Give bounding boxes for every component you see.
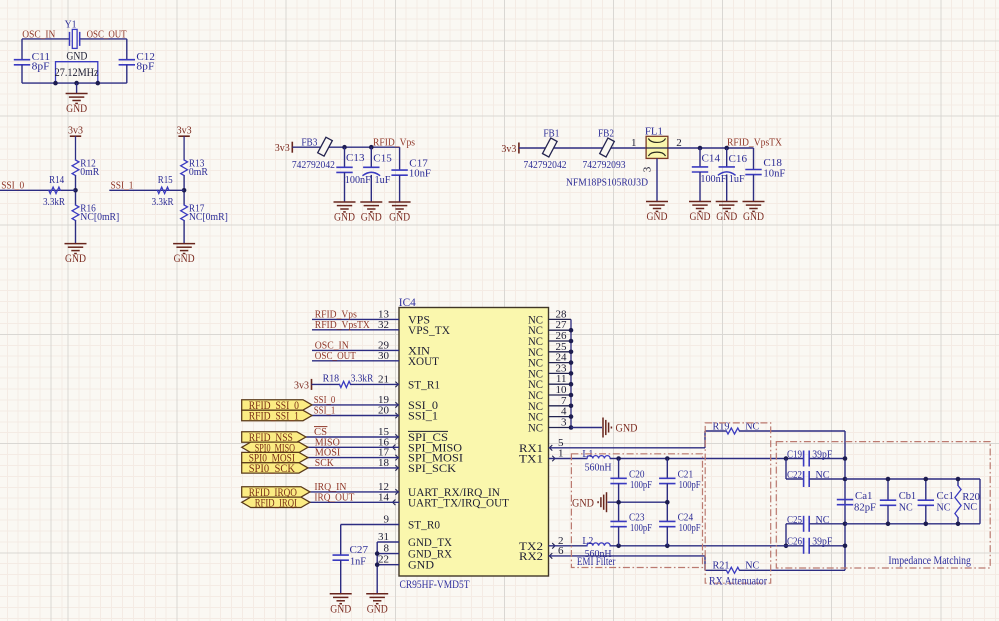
svg-text:3v3: 3v3 xyxy=(294,379,309,391)
svg-text:3.3kR: 3.3kR xyxy=(43,196,66,208)
svg-text:GND: GND xyxy=(743,209,764,223)
svg-text:100nF: 100nF xyxy=(345,174,371,186)
svg-text:1uF: 1uF xyxy=(729,173,745,185)
svg-text:SSI_0: SSI_0 xyxy=(1,179,24,191)
svg-text:R18: R18 xyxy=(323,373,340,385)
svg-text:3v3: 3v3 xyxy=(275,142,290,154)
svg-text:R19: R19 xyxy=(713,420,730,432)
svg-text:Cc1: Cc1 xyxy=(937,490,955,502)
svg-text:C15: C15 xyxy=(373,153,392,165)
svg-text:R21: R21 xyxy=(713,559,730,571)
svg-text:3: 3 xyxy=(642,166,654,172)
svg-text:C27: C27 xyxy=(350,544,369,556)
svg-text:GND: GND xyxy=(572,495,594,509)
svg-text:1: 1 xyxy=(631,137,637,149)
svg-text:3: 3 xyxy=(561,417,567,429)
svg-text:RFID_VpsTX: RFID_VpsTX xyxy=(727,136,782,148)
svg-text:GND: GND xyxy=(66,49,87,63)
svg-text:742792042: 742792042 xyxy=(292,159,335,171)
svg-text:100pF: 100pF xyxy=(679,522,701,534)
svg-text:RFID_Vps: RFID_Vps xyxy=(373,136,415,148)
svg-text:SSI_1: SSI_1 xyxy=(408,409,438,423)
svg-text:SCK: SCK xyxy=(315,457,334,469)
svg-text:GND: GND xyxy=(361,210,382,224)
svg-text:RX Attenuator: RX Attenuator xyxy=(709,576,767,588)
svg-text:TX1: TX1 xyxy=(519,452,543,466)
svg-text:560nH: 560nH xyxy=(585,462,612,474)
svg-text:OSC_IN: OSC_IN xyxy=(22,28,55,40)
svg-text:NC: NC xyxy=(528,421,543,435)
svg-text:FB2: FB2 xyxy=(598,128,614,140)
svg-text:3.3kR: 3.3kR xyxy=(152,196,175,208)
svg-text:C14: C14 xyxy=(702,152,721,164)
svg-text:IRQ_OUT: IRQ_OUT xyxy=(314,491,354,503)
svg-text:RX2: RX2 xyxy=(519,549,543,563)
svg-text:NC[0mR]: NC[0mR] xyxy=(189,211,228,223)
svg-text:XOUT: XOUT xyxy=(408,354,440,368)
svg-text:3v3: 3v3 xyxy=(177,125,192,137)
svg-text:39pF: 39pF xyxy=(812,536,832,548)
svg-text:100pF: 100pF xyxy=(679,479,701,491)
svg-text:1nF: 1nF xyxy=(350,555,366,567)
svg-text:GND: GND xyxy=(408,558,434,572)
svg-text:NC: NC xyxy=(745,420,759,432)
svg-text:3v3: 3v3 xyxy=(501,143,516,155)
svg-text:L2: L2 xyxy=(582,535,593,547)
svg-text:8pF: 8pF xyxy=(136,60,154,72)
svg-text:20: 20 xyxy=(378,405,390,417)
svg-text:R15: R15 xyxy=(158,174,173,186)
svg-text:NC: NC xyxy=(816,514,830,526)
svg-text:EMI Filter: EMI Filter xyxy=(577,556,616,568)
svg-text:VPS_TX: VPS_TX xyxy=(408,323,450,337)
svg-text:27.12MHz: 27.12MHz xyxy=(55,65,99,79)
svg-text:1uF: 1uF xyxy=(375,174,391,186)
svg-text:C19: C19 xyxy=(787,449,802,461)
svg-text:UART_TX/IRQ_OUT: UART_TX/IRQ_OUT xyxy=(408,495,510,509)
svg-text:C25: C25 xyxy=(787,514,802,526)
svg-text:CR95HF-VMD5T: CR95HF-VMD5T xyxy=(400,579,470,591)
svg-text:100pF: 100pF xyxy=(630,522,652,534)
svg-text:FB3: FB3 xyxy=(301,136,317,148)
svg-text:RFID_VpsTX: RFID_VpsTX xyxy=(315,319,370,331)
svg-text:OSC_OUT: OSC_OUT xyxy=(315,350,356,362)
svg-text:742792093: 742792093 xyxy=(583,159,626,171)
svg-text:R14: R14 xyxy=(49,174,64,186)
svg-text:3.3kR: 3.3kR xyxy=(351,373,374,385)
svg-text:OSC_OUT: OSC_OUT xyxy=(87,28,127,40)
svg-text:100nF: 100nF xyxy=(700,173,726,185)
svg-text:GND: GND xyxy=(690,209,711,223)
svg-text:GND: GND xyxy=(334,210,355,224)
svg-text:C22: C22 xyxy=(787,469,802,481)
svg-text:NC[0mR]: NC[0mR] xyxy=(80,211,119,223)
svg-text:GND: GND xyxy=(66,101,87,115)
svg-text:0mR: 0mR xyxy=(189,166,209,178)
svg-text:GND: GND xyxy=(65,251,86,265)
svg-text:82pF: 82pF xyxy=(854,502,876,514)
svg-text:14: 14 xyxy=(378,491,390,503)
svg-text:RFID_SSI_1: RFID_SSI_1 xyxy=(249,411,300,423)
svg-text:GND: GND xyxy=(174,251,195,265)
svg-text:Cb1: Cb1 xyxy=(899,490,917,502)
svg-text:31: 31 xyxy=(378,531,389,543)
svg-text:FL1: FL1 xyxy=(645,125,663,137)
svg-text:NC: NC xyxy=(745,559,759,571)
svg-text:Y1: Y1 xyxy=(65,19,77,31)
svg-text:NC: NC xyxy=(963,501,977,513)
svg-text:NC: NC xyxy=(816,469,830,481)
svg-text:32: 32 xyxy=(378,319,389,331)
svg-text:NFM18PS105R0J3D: NFM18PS105R0J3D xyxy=(566,176,648,188)
svg-text:2: 2 xyxy=(676,137,682,149)
svg-text:ST_R0: ST_R0 xyxy=(408,518,440,532)
svg-text:3v3: 3v3 xyxy=(68,125,83,137)
svg-text:IC4: IC4 xyxy=(399,297,416,309)
svg-text:C13: C13 xyxy=(346,152,365,164)
svg-text:SSI_1: SSI_1 xyxy=(111,179,134,191)
svg-text:NC: NC xyxy=(899,502,913,514)
svg-text:10nF: 10nF xyxy=(409,168,431,180)
svg-text:GND: GND xyxy=(716,209,737,223)
svg-text:SSI_1: SSI_1 xyxy=(314,404,336,416)
svg-text:Impedance Matching: Impedance Matching xyxy=(888,555,971,567)
svg-text:100pF: 100pF xyxy=(630,479,652,491)
svg-text:GND: GND xyxy=(647,209,668,223)
svg-text:GND: GND xyxy=(389,210,410,224)
svg-text:GND: GND xyxy=(616,421,638,435)
svg-text:1: 1 xyxy=(558,448,564,460)
svg-text:SPI0_SCK: SPI0_SCK xyxy=(249,463,296,475)
svg-text:21: 21 xyxy=(378,373,389,385)
svg-text:6: 6 xyxy=(558,545,564,557)
svg-text:Ca1: Ca1 xyxy=(855,490,873,502)
svg-text:RFID_IRQI: RFID_IRQI xyxy=(255,497,297,509)
svg-text:742792042: 742792042 xyxy=(524,159,567,171)
svg-text:GND: GND xyxy=(367,601,388,615)
svg-text:30: 30 xyxy=(378,350,390,362)
svg-text:NC: NC xyxy=(937,502,951,514)
svg-text:8pF: 8pF xyxy=(32,60,50,72)
svg-text:ST_R1: ST_R1 xyxy=(408,377,440,391)
svg-text:39pF: 39pF xyxy=(812,449,832,461)
svg-text:GND: GND xyxy=(330,601,351,615)
svg-text:SPI_SCK: SPI_SCK xyxy=(408,461,456,475)
svg-text:10nF: 10nF xyxy=(763,167,785,179)
svg-text:22: 22 xyxy=(378,554,389,566)
svg-text:0mR: 0mR xyxy=(80,166,100,178)
svg-text:C16: C16 xyxy=(729,153,748,165)
svg-text:9: 9 xyxy=(384,514,390,526)
svg-text:FB1: FB1 xyxy=(543,128,559,140)
svg-text:18: 18 xyxy=(378,457,390,469)
